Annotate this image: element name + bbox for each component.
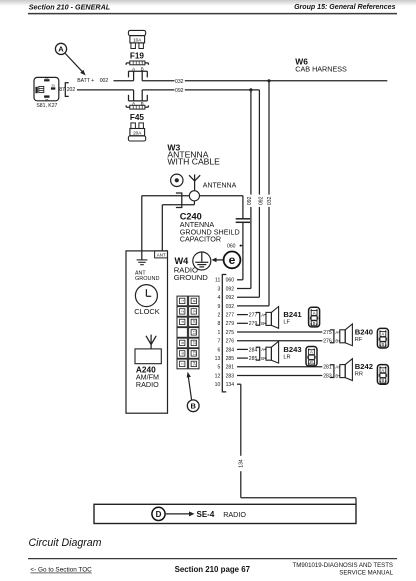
wire 032 segment right <box>185 80 387 82</box>
relay pin 30 (right) <box>51 84 55 90</box>
wire antenna center to radio ANT <box>162 201 194 251</box>
ANT GROUND text <box>135 271 159 282</box>
footer manual title <box>293 562 394 576</box>
junction on wire 032 <box>267 79 270 82</box>
harness W6 label <box>295 57 347 74</box>
relay coil <box>39 86 44 92</box>
junction on wire 092 <box>249 88 252 91</box>
wire 134 segment <box>237 383 241 385</box>
svg-text:87: 87 <box>59 87 65 93</box>
speaker B242 wire 283 label <box>323 373 332 379</box>
relay connector bracket <box>65 83 68 97</box>
fuse F45 pin B wire <box>141 90 143 101</box>
svg-text:86: 86 <box>45 76 49 80</box>
svg-text:Circuit Diagram: Circuit Diagram <box>29 537 102 549</box>
connector bracket <box>222 275 226 392</box>
wire antenna shield to radio ground <box>142 195 190 197</box>
svg-text:134: 134 <box>226 382 235 388</box>
radio A240 box <box>126 251 168 413</box>
svg-text:Group 15: General References: Group 15: General References <box>294 4 396 11</box>
speaker B240 wire 276 label <box>323 339 332 345</box>
svg-text:RR: RR <box>355 372 363 378</box>
fuse F45 symbol <box>126 105 148 109</box>
wire 279 label <box>226 321 235 327</box>
wire shield down to ANT GROUND <box>141 196 143 260</box>
svg-text:RF: RF <box>355 337 363 343</box>
speaker B241 pin B <box>261 321 266 326</box>
svg-text:Section 210 - GENERAL: Section 210 - GENERAL <box>29 2 110 11</box>
svg-text:092: 092 <box>226 295 235 301</box>
speaker B240 connector bracket <box>330 330 334 343</box>
speaker B240 pin B <box>335 339 339 344</box>
ground W4 chassis symbol <box>193 252 211 270</box>
svg-text:092: 092 <box>258 196 264 205</box>
speaker B243 pin A <box>261 347 266 352</box>
wire 092 vertical label 2 <box>258 196 264 205</box>
wire 277 segment <box>237 314 248 316</box>
wire 202 segment <box>77 89 134 91</box>
speaker B243 wire 285 label <box>249 356 258 362</box>
wire 002 segment <box>114 80 134 82</box>
svg-text:12: 12 <box>215 373 221 379</box>
pin 4 <box>217 295 220 301</box>
svg-text:6: 6 <box>217 347 220 353</box>
svg-text:10A: 10A <box>133 37 142 42</box>
wire 284 label <box>226 347 235 353</box>
relay pin 85 (bottom) <box>44 95 49 102</box>
svg-text:A: A <box>261 347 264 352</box>
wire 275 segment <box>237 331 322 333</box>
footer page number <box>175 565 251 574</box>
svg-text:7: 7 <box>181 363 185 365</box>
fuse F19 blade icon 10A <box>128 30 145 48</box>
wire 092 vertical to pin 4 <box>258 90 260 297</box>
svg-text:285: 285 <box>249 356 258 362</box>
speaker B241 connector bracket <box>256 313 260 326</box>
svg-text:032: 032 <box>226 304 235 310</box>
wire 134 vertical <box>240 384 242 498</box>
speaker B241 wire 279 label <box>249 321 258 327</box>
wire 092 segment row3 <box>237 288 251 290</box>
callout D <box>152 507 165 520</box>
wire 283 segment <box>237 375 322 377</box>
pin 11 <box>215 278 220 284</box>
wire 092 label row3 <box>226 286 235 292</box>
svg-text:12: 12 <box>192 341 196 345</box>
wire 092 label <box>175 88 184 94</box>
node SE-4 RADIO label <box>223 510 246 519</box>
pin 12 <box>215 373 221 379</box>
wire 285 segment <box>237 357 248 359</box>
svg-text:281: 281 <box>323 365 332 371</box>
CLOCK text <box>134 307 160 316</box>
svg-text:8: 8 <box>192 300 196 302</box>
svg-text:B243: B243 <box>283 345 301 354</box>
svg-text:2: 2 <box>181 310 185 312</box>
svg-text:GROUND: GROUND <box>135 276 159 282</box>
svg-text:3: 3 <box>217 286 220 292</box>
svg-text:284: 284 <box>249 347 258 353</box>
svg-text:13: 13 <box>215 356 221 362</box>
svg-text:285: 285 <box>226 356 235 362</box>
node SE-4 label <box>197 510 215 519</box>
svg-text:GROUND: GROUND <box>174 273 209 282</box>
speaker B241 symbol <box>266 307 279 329</box>
wire 032 segment row9 <box>237 305 269 307</box>
svg-text:002: 002 <box>100 78 109 84</box>
svg-text:WITH CABLE: WITH CABLE <box>167 157 220 167</box>
speaker B243 pin B <box>261 356 266 361</box>
svg-text:RADIO: RADIO <box>223 510 246 519</box>
svg-text:F45: F45 <box>130 113 145 122</box>
cable shield bracket <box>176 193 182 208</box>
svg-text:202: 202 <box>67 87 76 93</box>
fuse F19 pin B label <box>141 66 144 71</box>
svg-text:11: 11 <box>215 278 220 284</box>
wire 202 label <box>67 87 76 93</box>
svg-text:032: 032 <box>267 196 273 205</box>
pin 9 <box>217 304 220 310</box>
wire 275 label <box>226 330 235 336</box>
svg-text:LR: LR <box>283 354 290 360</box>
svg-text:6: 6 <box>181 352 185 354</box>
svg-text:276: 276 <box>226 339 235 345</box>
fuse F19 label <box>130 51 145 60</box>
speaker B242 pin A <box>335 365 339 370</box>
wire 002 label <box>100 78 109 84</box>
svg-text:A: A <box>335 330 338 335</box>
wire 276 segment <box>237 340 322 342</box>
svg-text:A: A <box>58 45 64 54</box>
speaker B240 pin A <box>335 330 339 335</box>
svg-text:2: 2 <box>217 313 220 319</box>
svg-text:TM901019-DIAGNOSIS AND TESTS: TM901019-DIAGNOSIS AND TESTS <box>293 562 393 569</box>
pin 8 <box>217 321 220 327</box>
wire 060 segment <box>237 279 243 281</box>
svg-text:Section 210 page 67: Section 210 page 67 <box>175 565 251 574</box>
speaker B241 label LF <box>283 310 302 326</box>
svg-text:092: 092 <box>247 196 253 205</box>
svg-text:279: 279 <box>249 321 258 327</box>
svg-text:RADIO: RADIO <box>136 380 159 389</box>
fuse F45 pin A label <box>132 101 135 106</box>
wire 284 segment <box>237 348 248 350</box>
ground W4 label <box>174 256 209 282</box>
svg-text:B: B <box>190 402 196 411</box>
speaker B242 connector bracket <box>330 365 334 378</box>
speaker B243 symbol <box>266 341 279 363</box>
relay label S81, K27 <box>36 103 57 109</box>
speaker B242 pin B <box>335 373 339 378</box>
speaker B242 label RR <box>355 362 373 378</box>
wire 032 vertical label <box>267 196 273 205</box>
svg-text:14: 14 <box>192 362 196 366</box>
svg-text:10: 10 <box>192 320 196 324</box>
pin 3 <box>217 286 220 292</box>
svg-text:B: B <box>261 321 264 326</box>
speaker B241 wire 277 label <box>249 313 258 319</box>
svg-text:CAB HARNESS: CAB HARNESS <box>295 65 347 74</box>
harness W3 label <box>167 142 220 166</box>
wire 092 label row4 <box>226 295 235 301</box>
header left title <box>29 2 110 11</box>
speaker B241 connector icon <box>309 307 320 327</box>
speaker B241 pin A <box>261 312 266 317</box>
callout B <box>187 400 199 412</box>
svg-text:277: 277 <box>226 313 235 319</box>
antenna mount <box>171 174 183 186</box>
svg-text:9: 9 <box>217 304 220 310</box>
pin 1 <box>217 330 220 336</box>
speaker B243 connector bracket <box>256 347 260 360</box>
speaker B240 wire 275 label <box>323 330 332 336</box>
svg-text:B: B <box>335 373 338 378</box>
svg-text:B: B <box>335 339 338 344</box>
svg-text:060: 060 <box>227 244 236 250</box>
wire 092 segment right <box>185 89 260 91</box>
wire 134 label <box>226 382 235 388</box>
wire 092 vertical to pin 3 <box>250 90 252 289</box>
svg-text:W4: W4 <box>175 256 190 266</box>
wire 032 label row9 <box>226 304 235 310</box>
pin 13 <box>215 356 221 362</box>
wire 134 horizontal to SE-4 <box>241 498 356 505</box>
wire 032 label <box>175 79 184 85</box>
svg-text:092: 092 <box>175 88 184 94</box>
svg-text:4: 4 <box>217 295 220 301</box>
callout B leader arrow <box>187 372 192 400</box>
svg-text:SERVICE MANUAL: SERVICE MANUAL <box>339 569 393 576</box>
pin 10 <box>215 382 221 388</box>
wire 032 segment left <box>142 80 174 82</box>
speaker B242 wire 281 label <box>323 365 332 371</box>
svg-text:032: 032 <box>175 79 184 85</box>
radio A240 label <box>136 364 159 389</box>
speaker B243 label LR <box>283 345 301 361</box>
wire 281 segment <box>237 366 322 368</box>
pin 7 <box>217 339 220 345</box>
node BATT + label <box>77 78 94 84</box>
svg-text:275: 275 <box>323 330 332 336</box>
svg-text:LF: LF <box>283 320 290 326</box>
svg-text:5: 5 <box>217 365 220 371</box>
wire 092 segment row4 <box>237 296 259 298</box>
radio pin ANT box <box>155 251 168 258</box>
wire 092 vertical label <box>247 196 253 205</box>
footer rule <box>28 558 397 560</box>
svg-text:9: 9 <box>192 310 196 312</box>
svg-text:20A: 20A <box>133 130 142 135</box>
callout A leader arrow <box>65 53 85 75</box>
svg-text:283: 283 <box>323 373 332 379</box>
bus SE-4 box <box>94 504 356 523</box>
clock symbol <box>135 285 157 307</box>
antenna cable connector <box>189 191 199 201</box>
fuse F45 connector face <box>129 95 148 101</box>
svg-text:13: 13 <box>192 351 196 355</box>
svg-text:A: A <box>335 365 338 370</box>
svg-text:8: 8 <box>217 321 220 327</box>
fuse F19 pin B wire <box>141 71 143 81</box>
svg-text:SE-4: SE-4 <box>197 510 215 519</box>
wire 281 label <box>226 365 235 371</box>
svg-text:ANTENNA: ANTENNA <box>203 182 237 189</box>
pin 6 <box>217 347 220 353</box>
svg-text:e: e <box>229 253 236 267</box>
svg-text:284: 284 <box>226 347 235 353</box>
wire antenna to capacitor <box>200 195 243 197</box>
svg-text:S81, K27: S81, K27 <box>36 103 57 109</box>
wire 060 upper label <box>227 244 243 250</box>
wire 276 label <box>226 339 235 345</box>
svg-text:BATT +: BATT + <box>77 78 94 84</box>
fuse F19 pin A label <box>132 66 135 71</box>
svg-text:279: 279 <box>226 321 235 327</box>
svg-text:283: 283 <box>226 373 235 379</box>
svg-text:277: 277 <box>249 313 258 319</box>
svg-text:ANT: ANT <box>157 252 166 257</box>
antenna symbol <box>189 174 200 190</box>
speaker B240 label RF <box>355 327 373 343</box>
fuse F19 connector face <box>129 71 148 77</box>
wire 060 label row <box>226 278 235 284</box>
radio tuner box <box>135 349 161 364</box>
radio connector block <box>177 296 199 369</box>
svg-text:060: 060 <box>226 278 235 284</box>
svg-text:B240: B240 <box>355 327 373 336</box>
svg-text:F19: F19 <box>130 51 145 60</box>
svg-text:1: 1 <box>217 330 220 336</box>
relay pin 86 (top) <box>44 76 49 81</box>
relay pin 87 (left) <box>35 87 37 93</box>
svg-text:7: 7 <box>217 339 220 345</box>
svg-text:092: 092 <box>226 286 235 292</box>
callout A <box>55 43 66 54</box>
ground ANT GROUND symbol <box>137 260 148 265</box>
svg-text:30: 30 <box>51 84 55 88</box>
wire 285 label <box>226 356 235 362</box>
wire 277 label <box>226 313 235 319</box>
footer TOC link <box>30 567 92 574</box>
svg-text:A: A <box>261 312 264 317</box>
svg-text:B241: B241 <box>283 310 302 319</box>
svg-text:281: 281 <box>226 365 235 371</box>
radio antenna symbol <box>146 335 156 349</box>
speaker B242 connector icon <box>377 365 388 385</box>
callout e <box>224 252 241 269</box>
fuse F45 blade icon 20A <box>128 123 145 141</box>
capacitor C240 <box>236 196 250 280</box>
svg-text:D: D <box>156 510 162 519</box>
svg-text:CLOCK: CLOCK <box>134 307 160 316</box>
speaker B240 connector icon <box>377 328 388 348</box>
fuse F45 label <box>130 113 145 122</box>
footer caption Circuit Diagram <box>29 537 102 549</box>
wire 283 label <box>226 373 235 379</box>
relay pin 87 label <box>59 87 65 93</box>
svg-text:275: 275 <box>226 330 235 336</box>
svg-text:B: B <box>261 356 264 361</box>
svg-text:10: 10 <box>215 382 221 388</box>
header right title <box>294 4 396 11</box>
svg-text:B242: B242 <box>355 362 373 371</box>
speaker B243 connector icon <box>306 347 317 367</box>
svg-text:<- Go to Section TOC: <- Go to Section TOC <box>30 567 92 574</box>
svg-text:CAPACITOR: CAPACITOR <box>180 235 221 244</box>
pin 2 <box>217 313 220 319</box>
wire 279 segment <box>237 322 248 324</box>
capacitor C240 label <box>180 211 240 243</box>
speaker B242 symbol <box>340 359 353 381</box>
speaker B240 symbol <box>340 324 353 346</box>
svg-text:11: 11 <box>192 330 196 334</box>
wire 092 segment left <box>142 89 174 91</box>
ANTENNA text label <box>203 182 237 189</box>
wire 032 vertical to pin 9 <box>268 81 270 306</box>
fuse F19 pin A wire <box>133 71 135 81</box>
callout D arrow <box>166 511 195 516</box>
svg-text:134: 134 <box>239 459 245 468</box>
svg-text:3: 3 <box>181 321 185 323</box>
callout e arrow <box>212 258 224 263</box>
pin 5 <box>217 365 220 371</box>
wire 134 vertical label <box>239 459 245 468</box>
speaker B243 wire 284 label <box>249 347 258 353</box>
relay S81, K27 body <box>34 77 59 100</box>
svg-text:1: 1 <box>181 300 185 302</box>
svg-text:85: 85 <box>45 98 49 102</box>
fuse F45 pin B label <box>141 101 144 106</box>
svg-text:276: 276 <box>323 339 332 345</box>
fuse F45 pin A wire <box>133 90 135 101</box>
fuse F19 symbol <box>126 61 148 65</box>
header rule <box>28 13 397 15</box>
svg-text:5: 5 <box>181 342 185 344</box>
